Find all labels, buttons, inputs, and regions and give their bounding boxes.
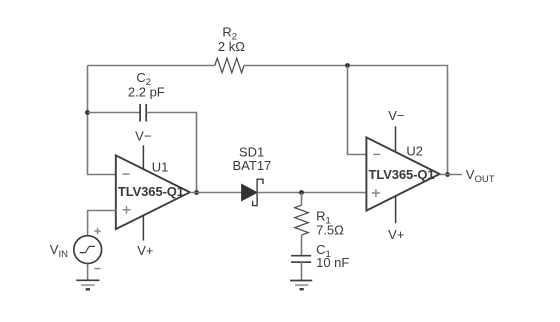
svg-text:V+: V+ — [137, 243, 153, 258]
diode SD1 (Schottky BAT17) — [242, 179, 263, 205]
wire: diode cathode to U2 non-inverting input — [257, 192, 366, 194]
source V_IN — [50, 228, 102, 269]
U2 plus input mark — [372, 189, 380, 197]
svg-text:10 nF: 10 nF — [316, 255, 349, 270]
node: R1 tap — [299, 190, 304, 195]
svg-text:BAT17: BAT17 — [233, 158, 272, 173]
ground (under C1) — [290, 281, 312, 290]
svg-text:7.5Ω: 7.5Ω — [316, 223, 344, 238]
wire: U2 inverting feedback (down from top wire) — [348, 66, 367, 155]
waveform glyph — [80, 246, 95, 252]
wire: C1 to ground — [301, 262, 303, 280]
node: U1 output — [194, 190, 199, 195]
wire: C2 right plate to U1 output — [146, 113, 196, 193]
wire: rail to C2 left plate — [88, 112, 141, 114]
op-amp U1 — [116, 129, 190, 258]
wire: source to ground — [87, 264, 89, 281]
U1 V- stub — [142, 145, 144, 168]
wire: U2 output to VOUT — [440, 174, 462, 176]
svg-text:V−: V− — [388, 108, 404, 123]
minus polarity mark — [94, 268, 100, 270]
svg-text:V+: V+ — [388, 227, 404, 242]
U1 minus input mark — [123, 173, 130, 175]
U2 minus input mark — [373, 153, 380, 155]
wire: U1 output to diode anode — [190, 192, 242, 194]
wire: node down to R1 — [301, 193, 303, 206]
svg-text:U2: U2 — [406, 144, 423, 159]
resistor R1 — [295, 205, 309, 235]
wire: R1 to C1 — [301, 235, 303, 255]
schottky cathode bar — [253, 179, 263, 205]
wire: V_IN source to U1 non-inverting input — [88, 211, 116, 236]
node: VOUT junction — [445, 172, 450, 177]
ground (under V_IN) — [76, 280, 99, 289]
wire: top feedback from rail to R2 — [88, 65, 215, 67]
U2 V+ stub — [395, 197, 397, 224]
svg-text:2 kΩ: 2 kΩ — [218, 39, 245, 54]
svg-text:V−: V− — [135, 129, 151, 144]
svg-text:TLV365-Q1: TLV365-Q1 — [118, 184, 184, 199]
resistor R2 — [215, 58, 244, 73]
svg-text:2.2 pF: 2.2 pF — [128, 85, 165, 100]
svg-text:U1: U1 — [152, 159, 169, 174]
capacitor C1 — [291, 256, 311, 263]
svg-text:TLV365-Q1: TLV365-Q1 — [369, 167, 435, 182]
U1 V+ stub — [142, 215, 144, 240]
node: C2 tap on left rail — [85, 110, 90, 115]
plus polarity mark — [94, 228, 100, 234]
U2 V- stub — [395, 126, 397, 152]
U1 plus input mark — [123, 206, 131, 214]
wire: R2 to output corner, down to VOUT node — [244, 66, 448, 175]
op-amp U2 — [366, 108, 439, 242]
capacitor C2 — [140, 104, 146, 122]
node: junction on top wire feeding U2 inverting input — [345, 63, 350, 68]
wire: U1 inverting rail (left vertical) — [88, 66, 116, 175]
